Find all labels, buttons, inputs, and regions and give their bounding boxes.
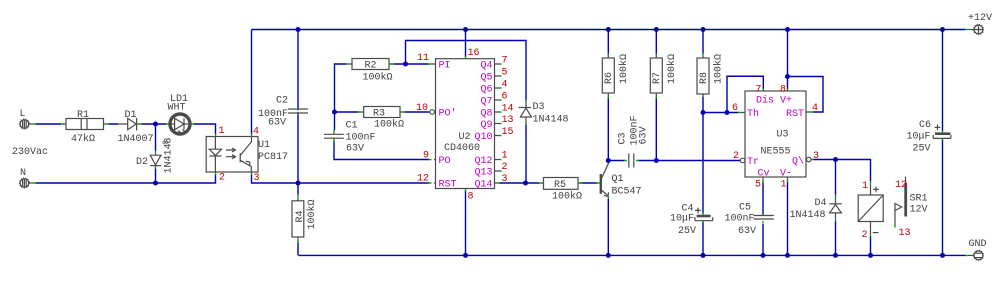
svg-text:1N4007: 1N4007 [118, 134, 154, 145]
svg-text:8: 8 [468, 192, 474, 203]
svg-text:12V: 12V [910, 205, 928, 216]
svg-text:1N4148: 1N4148 [790, 210, 826, 221]
svg-text:100kΩ: 100kΩ [363, 72, 393, 84]
svg-text:6: 6 [732, 103, 738, 114]
svg-text:D1: D1 [125, 110, 137, 121]
svg-text:7: 7 [755, 84, 761, 95]
svg-text:D2: D2 [136, 157, 148, 168]
svg-text:63V: 63V [738, 226, 756, 237]
svg-text:100nF: 100nF [725, 214, 755, 225]
svg-text:14: 14 [502, 104, 514, 115]
svg-text:63V: 63V [346, 144, 364, 155]
svg-text:R3: R3 [373, 109, 385, 120]
svg-text:Q5: Q5 [480, 73, 492, 84]
svg-text:2: 2 [862, 230, 868, 241]
svg-text:R5: R5 [554, 180, 566, 191]
svg-text:U2: U2 [459, 132, 471, 143]
svg-text:10μF: 10μF [907, 132, 931, 143]
svg-text:100kΩ: 100kΩ [666, 54, 678, 84]
svg-text:D3: D3 [533, 102, 545, 113]
svg-text:R8: R8 [699, 72, 710, 84]
svg-text:3: 3 [813, 151, 819, 162]
svg-text:PO': PO' [439, 108, 457, 120]
svg-text:Dis: Dis [756, 95, 774, 107]
svg-text:16: 16 [468, 48, 480, 59]
svg-text:100kΩ: 100kΩ [713, 54, 725, 84]
svg-text:4: 4 [502, 80, 508, 91]
svg-text:12: 12 [417, 174, 429, 185]
svg-text:PI: PI [439, 61, 451, 72]
svg-text:5: 5 [755, 180, 761, 191]
svg-text:Q6: Q6 [480, 85, 492, 96]
svg-text:SR1: SR1 [910, 194, 928, 205]
svg-text:Tr: Tr [747, 157, 759, 168]
svg-text:N: N [20, 168, 26, 179]
svg-text:13: 13 [502, 115, 514, 126]
svg-text:U3: U3 [777, 130, 789, 141]
svg-text:63V: 63V [268, 118, 286, 129]
svg-text:R7: R7 [652, 72, 663, 84]
svg-text:1: 1 [502, 151, 508, 162]
svg-text:100nF: 100nF [346, 133, 376, 144]
svg-text:Q14: Q14 [474, 180, 492, 191]
svg-text:Q10: Q10 [474, 132, 492, 143]
svg-text:PO: PO [439, 156, 451, 167]
svg-text:Q9: Q9 [480, 120, 492, 131]
svg-text:1N4148: 1N4148 [533, 115, 569, 126]
svg-text:100kΩ: 100kΩ [374, 119, 404, 131]
svg-text:Cv: Cv [758, 169, 770, 180]
svg-text:GND: GND [969, 239, 987, 250]
svg-text:R1: R1 [77, 110, 89, 121]
svg-text:1: 1 [219, 126, 225, 137]
svg-text:3: 3 [254, 173, 260, 184]
svg-text:100kΩ: 100kΩ [618, 54, 630, 84]
svg-text:100kΩ: 100kΩ [552, 191, 582, 203]
svg-text:10μF: 10μF [670, 214, 694, 225]
svg-text:2: 2 [733, 151, 739, 162]
svg-text:+12V: +12V [968, 13, 992, 24]
svg-text:U1: U1 [258, 140, 270, 151]
svg-text:BC547: BC547 [612, 187, 642, 198]
svg-text:7: 7 [502, 55, 508, 66]
svg-text:C6: C6 [919, 120, 931, 131]
svg-text:2: 2 [219, 173, 225, 184]
svg-text:R2: R2 [365, 61, 377, 72]
svg-text:3: 3 [502, 174, 508, 185]
svg-text:V+: V+ [780, 96, 792, 107]
svg-text:R4: R4 [295, 210, 306, 222]
svg-text:47kΩ: 47kΩ [71, 133, 95, 145]
svg-text:25V: 25V [678, 226, 696, 237]
svg-text:C3: C3 [618, 132, 629, 144]
svg-text:25V: 25V [913, 144, 931, 155]
svg-text:NE555: NE555 [761, 147, 791, 158]
svg-text:Q8: Q8 [480, 109, 492, 120]
svg-text:RST: RST [786, 109, 804, 120]
svg-text:12: 12 [895, 180, 907, 191]
svg-text:1: 1 [780, 180, 786, 191]
svg-text:WHT: WHT [168, 103, 186, 114]
svg-text:6: 6 [502, 92, 508, 103]
svg-text:D4: D4 [815, 198, 827, 209]
svg-text:RST: RST [439, 180, 457, 191]
svg-text:10: 10 [416, 103, 428, 114]
svg-text:Q\: Q\ [792, 156, 804, 168]
svg-text:230Vac: 230Vac [12, 147, 48, 158]
svg-text:Q1: Q1 [612, 174, 624, 185]
svg-text:L: L [20, 109, 26, 120]
svg-text:PC817: PC817 [258, 152, 288, 163]
svg-text:1: 1 [862, 181, 868, 192]
svg-text:Q13: Q13 [474, 168, 492, 179]
svg-text:Q7: Q7 [480, 97, 492, 108]
svg-text:C5: C5 [739, 203, 751, 214]
svg-text:13: 13 [899, 228, 911, 239]
svg-text:CD4060: CD4060 [444, 143, 480, 154]
svg-text:9: 9 [423, 151, 429, 162]
svg-text:C1: C1 [346, 121, 358, 132]
svg-text:100kΩ: 100kΩ [306, 199, 318, 229]
svg-text:11: 11 [417, 53, 429, 64]
svg-text:8: 8 [780, 84, 786, 95]
svg-text:4: 4 [253, 127, 259, 138]
svg-text:15: 15 [502, 127, 514, 138]
svg-text:R6: R6 [604, 72, 615, 84]
svg-text:Q4: Q4 [480, 61, 492, 72]
svg-text:C2: C2 [276, 96, 288, 107]
svg-text:1N4148: 1N4148 [164, 137, 175, 173]
svg-text:4: 4 [812, 103, 818, 114]
svg-text:63V: 63V [639, 126, 650, 144]
svg-text:Q12: Q12 [474, 156, 492, 167]
svg-text:5: 5 [502, 68, 508, 79]
svg-text:Th: Th [747, 108, 759, 120]
svg-text:2: 2 [502, 162, 508, 173]
svg-text:V-: V- [780, 169, 792, 180]
